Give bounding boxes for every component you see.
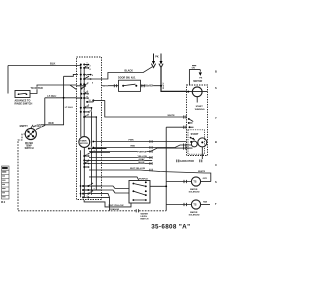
wire PURPLE2	[89, 177, 148, 181]
svg-text:EMPTY: EMPTY	[20, 125, 29, 128]
svg-text:BLACK: BLACK	[162, 82, 165, 89]
svg-text:2: 2	[91, 147, 92, 149]
title 35-6808 A	[151, 224, 190, 231]
wire valve feed	[166, 126, 186, 211]
svg-text:B: B	[215, 70, 217, 74]
svg-text:RINSE SWITCH: RINSE SWITCH	[15, 102, 33, 105]
svg-text:4: 4	[90, 68, 91, 71]
svg-text:8: 8	[87, 162, 88, 164]
svg-text:BLACK: BLACK	[125, 69, 134, 72]
svg-text:5: 5	[90, 192, 91, 194]
wire PURPLE1	[89, 147, 193, 154]
motor assembly M1 label	[189, 66, 202, 85]
svg-text:TAN: TAN	[203, 200, 208, 203]
wire RED to motor	[92, 144, 191, 149]
wire level sw feed A	[102, 186, 129, 189]
valve V2 water solenoid cold	[166, 200, 210, 217]
svg-text:RED: RED	[131, 146, 136, 148]
svg-text:GRAY: GRAY	[139, 158, 146, 161]
svg-text:BLUE: BLUE	[139, 162, 145, 164]
svg-text:CAPACITOR: CAPACITOR	[180, 160, 195, 163]
svg-text:FULL: FULL	[36, 125, 43, 128]
svg-text:SOLENOID: SOLENOID	[189, 192, 200, 194]
svg-text:6: 6	[92, 75, 93, 77]
switch S1 advance-to-rinse	[15, 91, 33, 106]
svg-text:3: 3	[87, 66, 88, 68]
note right edge marks	[215, 70, 217, 207]
wire neutral left run	[18, 134, 25, 211]
svg-text:START: START	[196, 105, 204, 108]
svg-text:10: 10	[83, 91, 85, 93]
svg-text:3: 3	[94, 188, 95, 190]
svg-text:14: 14	[87, 105, 89, 108]
svg-text:35-6808 "A": 35-6808 "A"	[151, 224, 190, 231]
svg-text:YELLOW: YELLOW	[138, 156, 148, 158]
svg-text:SWITCH: SWITCH	[140, 218, 149, 220]
timer rails	[81, 65, 97, 198]
wire BLUE	[89, 162, 152, 165]
svg-text:WHITE: WHITE	[168, 115, 176, 117]
svg-text:16: 16	[87, 115, 89, 117]
svg-text:TS: TS	[193, 181, 196, 184]
svg-text:GRY: GRY	[203, 178, 208, 180]
svg-text:LT. BLU: LT. BLU	[65, 107, 73, 109]
motor main winding	[187, 87, 208, 103]
svg-text:T: T	[215, 202, 217, 206]
legend color table	[1, 166, 9, 204]
wire level sw feed B	[102, 190, 129, 193]
svg-text:X: X	[215, 163, 217, 167]
svg-text:DOOR SW. N.O.: DOOR SW. N.O.	[118, 77, 136, 80]
wire GRAY	[89, 158, 152, 161]
switch door DOOR SW. N.O.	[102, 77, 163, 92]
svg-text:Y: Y	[215, 116, 217, 120]
svg-text:WINDING: WINDING	[195, 109, 205, 111]
motor internal contacts	[188, 118, 194, 128]
wire PINK	[92, 140, 186, 143]
svg-text:ORANGE: ORANGE	[110, 208, 120, 211]
svg-text:LT. BLU: LT. BLU	[48, 95, 57, 98]
svg-text:MOTOR: MOTOR	[80, 143, 88, 145]
svg-text:9: 9	[86, 84, 87, 86]
wire level sw out	[150, 185, 167, 187]
svg-text:BRN: BRN	[103, 86, 108, 88]
wire level sw feed C WHT-YELLOW	[84, 200, 131, 207]
svg-text:5: 5	[86, 75, 87, 77]
svg-text:12: 12	[86, 96, 88, 98]
svg-text:7: 7	[87, 196, 88, 198]
svg-text:15: 15	[90, 110, 92, 112]
timer contacts top	[77, 64, 102, 119]
svg-text:1: 1	[87, 63, 88, 65]
timer box T1	[77, 57, 102, 200]
wire WHITE to motor	[102, 100, 187, 118]
svg-text:SWITCH: SWITCH	[25, 148, 34, 150]
svg-text:6: 6	[87, 154, 88, 156]
svg-text:2: 2	[90, 65, 91, 67]
svg-text:WATER: WATER	[25, 142, 33, 145]
wire WHT-YELLOW return	[89, 168, 211, 181]
timer motor TM	[79, 137, 90, 148]
switch S2 water-temp rotary	[20, 125, 43, 150]
motor box	[187, 85, 208, 156]
wire level sw feed D	[102, 194, 110, 211]
svg-text:PURPLE: PURPLE	[138, 152, 147, 154]
svg-text:RED: RED	[49, 122, 54, 125]
wire YELLOW	[89, 156, 152, 159]
svg-text:W-2: W-2	[1, 202, 6, 204]
svg-text:8: 8	[92, 82, 93, 84]
valve V1 water solenoid hot	[166, 177, 211, 194]
svg-text:START: START	[191, 133, 199, 136]
wire RED	[33, 74, 78, 127]
svg-text:PINK: PINK	[129, 140, 135, 142]
motor start winding text	[195, 105, 205, 111]
wire bottom bus ORANGE	[18, 208, 166, 212]
svg-text:1: 1	[90, 184, 91, 186]
svg-text:SOLENOID: SOLENOID	[189, 215, 200, 217]
wire TO DRYER	[30, 85, 77, 94]
svg-text:TO DRYER: TO DRYER	[31, 87, 43, 90]
switch water-level box	[129, 181, 150, 221]
connector plug PK terminals	[151, 54, 163, 68]
svg-text:WHT-YELLOW: WHT-YELLOW	[109, 205, 125, 207]
svg-text:PK: PK	[155, 55, 159, 58]
svg-text:11: 11	[87, 92, 89, 94]
wire door feed BLACK	[91, 67, 153, 79]
motor start switch box	[188, 130, 207, 156]
wire BLK from line to timer	[8, 61, 81, 93]
svg-text:TS: TS	[193, 204, 196, 207]
wire LT.BLU	[36, 95, 77, 130]
svg-text:WHITE: WHITE	[198, 171, 206, 173]
svg-text:ON: ON	[192, 67, 196, 69]
svg-text:7: 7	[86, 79, 87, 81]
svg-text:S: S	[215, 86, 217, 90]
svg-text:S: S	[215, 180, 217, 184]
capacitor C1	[177, 156, 203, 163]
svg-text:WHT-YELLOW: WHT-YELLOW	[130, 168, 146, 170]
svg-text:13: 13	[89, 100, 91, 102]
svg-text:BLK: BLK	[50, 61, 55, 65]
timer pin numbers	[83, 63, 95, 198]
timer contacts bottom	[80, 148, 110, 199]
svg-text:BLACK: BLACK	[145, 85, 153, 88]
svg-text:B: B	[215, 140, 217, 144]
svg-text:MOTOR: MOTOR	[193, 80, 202, 83]
wire line cord to motor	[161, 68, 187, 92]
